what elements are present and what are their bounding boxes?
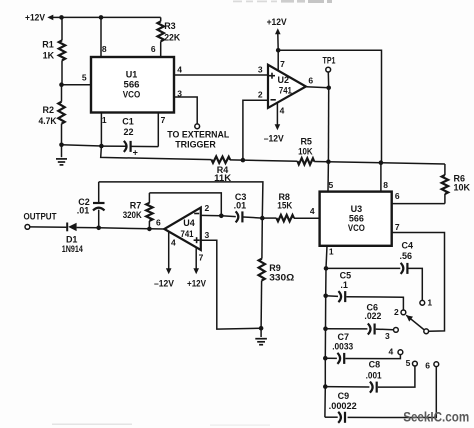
svg-text:7: 7 (199, 253, 204, 263)
switch contact 6 (425, 360, 438, 370)
svg-text:1: 1 (102, 115, 107, 125)
wire U4 pin3 down (201, 230, 261, 329)
svg-text:22: 22 (123, 127, 133, 137)
svg-text:4: 4 (280, 106, 285, 116)
svg-text:320K: 320K (123, 210, 142, 220)
svg-text:R2: R2 (42, 105, 54, 115)
wire R4 to R5 (230, 160, 298, 161)
wire U4 pin6 output (99, 218, 165, 229)
switch contact 3 (385, 328, 398, 342)
op-amp U2 (741) (268, 65, 306, 108)
svg-text:2: 2 (205, 203, 210, 213)
svg-text:.1: .1 (340, 280, 348, 290)
svg-text:15K: 15K (277, 201, 292, 211)
svg-text:2: 2 (394, 307, 399, 317)
resistor R2 (39, 85, 65, 145)
svg-text:–12V: –12V (264, 133, 285, 144)
diode D1 1N914 (62, 223, 99, 254)
svg-text:4: 4 (171, 238, 176, 248)
svg-text:+12V: +12V (267, 17, 288, 28)
svg-text:C5: C5 (340, 271, 352, 281)
wire U1 pin1 stub (101, 113, 107, 147)
svg-text:TO EXTERNAL: TO EXTERNAL (167, 129, 229, 139)
wire U2 pin7 (278, 50, 285, 70)
svg-text:TRIGGER: TRIGGER (175, 139, 216, 149)
power label -12V (U2) (264, 133, 285, 144)
svg-text:1N914: 1N914 (62, 244, 83, 254)
node U4 pin2 junction (219, 214, 224, 219)
wire U2 pin6 output (306, 75, 329, 87)
node C1 junction (99, 144, 104, 149)
label pin6 U1 (151, 44, 156, 54)
watermark SeekIC.com (403, 410, 469, 425)
scan artifact top (233, 0, 332, 3)
switch contact 4 (389, 346, 403, 356)
svg-text:C9: C9 (338, 391, 350, 401)
node ground junction (R9) (259, 326, 264, 331)
svg-text:R5: R5 (300, 137, 312, 147)
svg-text:VCO: VCO (348, 223, 365, 233)
power label -12V (U4) (154, 278, 174, 288)
wire U4 pin7 to +12V (193, 247, 203, 274)
resistor R9 (259, 218, 295, 328)
switch wiper arm (406, 315, 424, 330)
node U2 pin2 junction (241, 158, 246, 163)
svg-text:6: 6 (395, 191, 400, 201)
wire U2 out to U3 pin5 node (327, 88, 329, 162)
svg-text:10K: 10K (454, 183, 471, 193)
wire U3 pin1 stub (326, 246, 334, 269)
svg-text:330Ω: 330Ω (269, 273, 294, 283)
svg-text:.01: .01 (234, 201, 247, 211)
svg-text:.0033: .0033 (332, 342, 353, 352)
switch contact 5 (406, 358, 418, 368)
wire U1 pin8 stub (101, 17, 107, 57)
node C4 junction (324, 266, 329, 271)
node C6 junction (323, 326, 328, 331)
switch contact 1 (420, 298, 433, 308)
op-amp U3 (566 VCO) (320, 192, 392, 246)
node top-left junction (59, 15, 64, 20)
node U2 pin7 junction (276, 48, 281, 53)
resistor R5 (298, 137, 315, 165)
power label +12V (U2) (267, 17, 288, 50)
svg-text:3: 3 (385, 331, 390, 341)
capacitor C6 (326, 303, 394, 335)
svg-text:4.7K: 4.7K (39, 116, 57, 126)
node pin8 junction (99, 15, 104, 20)
svg-text:TP1: TP1 (323, 55, 336, 65)
wire R6 to U3 pin6 (392, 191, 445, 203)
wire R7 loop to U4 pin2 (149, 193, 221, 216)
svg-text:C1: C1 (122, 117, 134, 127)
wire U2 pin4 to -12V (275, 103, 285, 131)
wire U1 pin5 (62, 72, 92, 84)
wire to C1 node (62, 145, 102, 146)
wire U2 pin2 from R4 node (243, 89, 268, 160)
svg-text:6: 6 (308, 75, 313, 85)
wire U1 pin4 to U2 pin3 (174, 64, 268, 75)
resistor R4 (212, 156, 232, 183)
svg-text:–12V: –12V (154, 278, 174, 288)
svg-text:R3: R3 (164, 21, 176, 31)
wire U4 pin4 to -12V (166, 232, 176, 275)
power label +12V (U4) (187, 278, 206, 288)
resistor R8 (262, 192, 319, 221)
capacitor C3 (221, 192, 262, 223)
scan artifact bottom left (52, 424, 270, 426)
svg-text:C8: C8 (369, 360, 381, 370)
node C3-R8 junction (260, 216, 265, 221)
node C8 junction (323, 384, 328, 389)
capacitor C7 (325, 332, 400, 364)
resistor R1 (42, 17, 65, 84)
svg-text:6: 6 (151, 44, 156, 54)
svg-text:R9: R9 (269, 263, 281, 273)
terminal OUTPUT (24, 212, 57, 230)
wire U3 pin5 stub (328, 162, 334, 192)
wire timing-cap bus (325, 268, 326, 417)
wire C1-node down (101, 146, 212, 160)
node R1-R2 junction (59, 82, 64, 87)
svg-text:1: 1 (329, 247, 334, 257)
svg-text:3: 3 (177, 88, 182, 98)
svg-text:1K: 1K (43, 50, 55, 60)
svg-text:7: 7 (280, 59, 285, 69)
svg-text:7: 7 (161, 115, 166, 125)
label U3 pin4 (310, 206, 315, 216)
svg-text:5: 5 (82, 72, 87, 82)
svg-text:22K: 22K (164, 33, 180, 43)
svg-text:5: 5 (406, 358, 411, 368)
wire U3 pin7 to switch pole (392, 222, 445, 331)
svg-text:3: 3 (258, 64, 263, 74)
capacitor C2 (77, 182, 105, 228)
svg-text:.022: .022 (364, 311, 381, 321)
capacitor C5 (326, 271, 404, 311)
svg-text:7: 7 (395, 222, 400, 232)
node U3 pin8 junction (379, 160, 384, 165)
wire U1 pin7 stub (158, 113, 165, 147)
wire U3 pin8 stub (381, 163, 388, 192)
svg-text:.001: .001 (366, 370, 382, 380)
ground (center) (255, 328, 267, 345)
svg-text:5: 5 (329, 180, 334, 190)
node U3 pin5 junction (326, 159, 331, 164)
power label +12V (top left) (25, 13, 62, 24)
svg-text:U2: U2 (278, 75, 290, 85)
label TO EXTERNAL TRIGGER (167, 129, 229, 149)
svg-text:U4: U4 (183, 218, 195, 228)
svg-text:+: + (133, 147, 138, 157)
wire top feedback right (278, 50, 381, 162)
svg-text:+12V: +12V (25, 13, 46, 24)
capacitor C4 (326, 240, 422, 300)
switch pole (424, 329, 429, 334)
svg-text:8: 8 (102, 44, 107, 54)
svg-text:741: 741 (279, 85, 293, 96)
wire top +12V bus (62, 16, 161, 18)
svg-text:U1: U1 (126, 70, 138, 80)
node R7 bottom junction (147, 227, 152, 232)
svg-text:D1: D1 (66, 234, 78, 244)
svg-text:.01: .01 (77, 206, 90, 216)
svg-text:2: 2 (258, 89, 263, 99)
svg-text:4: 4 (177, 64, 182, 74)
svg-text:SeekIC.com: SeekIC.com (403, 410, 469, 425)
svg-text:6: 6 (156, 218, 161, 228)
terminal external trigger (195, 124, 200, 129)
op-amp U1 (566 VCO) (91, 57, 174, 113)
svg-text:C7: C7 (338, 332, 350, 342)
svg-text:OUTPUT: OUTPUT (24, 212, 57, 223)
svg-text:8: 8 (383, 180, 388, 190)
svg-text:10K: 10K (298, 147, 313, 157)
resistor R6 (442, 164, 471, 204)
svg-text:R1: R1 (42, 40, 54, 50)
wire output to diode (30, 226, 67, 228)
node U2 output junction (326, 86, 331, 91)
capacitor C8 (325, 360, 415, 393)
wire C2 loop to C3 node (99, 182, 263, 218)
test point TP1 (323, 55, 336, 87)
capacitor C9 (325, 367, 436, 423)
svg-text:6: 6 (425, 360, 430, 370)
svg-text:.00022: .00022 (329, 401, 357, 411)
node C5 junction (323, 294, 328, 299)
svg-text:4: 4 (389, 346, 394, 356)
resistor R3 (158, 17, 181, 57)
svg-text:741: 741 (181, 229, 195, 240)
op-amp U4 (741) (164, 208, 201, 251)
svg-text:+12V: +12V (187, 278, 206, 288)
svg-text:C4: C4 (402, 240, 414, 250)
node C7 junction (323, 356, 328, 361)
capacitor C1 (101, 117, 158, 158)
node output junction (96, 226, 101, 231)
svg-text:1: 1 (427, 298, 432, 308)
wire R5 to R6 (314, 162, 445, 165)
svg-text:4: 4 (310, 206, 315, 216)
node ground junction left (59, 143, 64, 148)
wire U1 pin3 to trigger terminal (174, 88, 197, 124)
svg-text:VCO: VCO (123, 90, 141, 100)
svg-text:U3: U3 (351, 204, 363, 214)
wire U4 pin2 (201, 203, 222, 216)
ground (left) (56, 145, 67, 165)
svg-text:3: 3 (205, 230, 210, 240)
svg-text:.56: .56 (400, 251, 413, 261)
switch contact 2 (394, 307, 406, 317)
resistor R7 (123, 193, 153, 229)
